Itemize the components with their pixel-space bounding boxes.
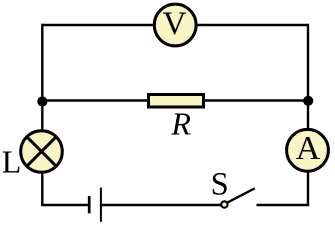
resistor value label R [170,105,191,141]
voltmeter label V [163,6,187,42]
switch label S [211,167,229,203]
lamp label L [2,144,22,180]
svg-text:L: L [2,144,22,180]
svg-text:S: S [211,167,229,203]
wire bottom left (battery to lamp branch) [41,204,88,206]
wire switch to ammeter branch [257,204,310,206]
resistor R1 body [149,95,204,108]
ammeter label A [296,130,321,167]
battery BT1 short negative plate [88,196,91,213]
voltmeter U-V circle [154,4,196,46]
node junction left [37,96,47,106]
node junction right [303,96,313,106]
switch S lever [227,188,254,202]
svg-text:V: V [163,6,187,42]
battery BT1 long positive plate [100,188,102,222]
lamp L1 circle [21,131,63,173]
ammeter U-A circle [287,129,329,171]
wire top horizontal [42,24,309,26]
svg-text:R: R [170,105,191,141]
wire middle horizontal [42,99,308,101]
wire right vertical [307,24,309,205]
wire left vertical [41,24,43,205]
wire battery to switch [101,204,222,206]
switch S pivot [221,201,227,207]
svg-text:A: A [296,130,321,167]
